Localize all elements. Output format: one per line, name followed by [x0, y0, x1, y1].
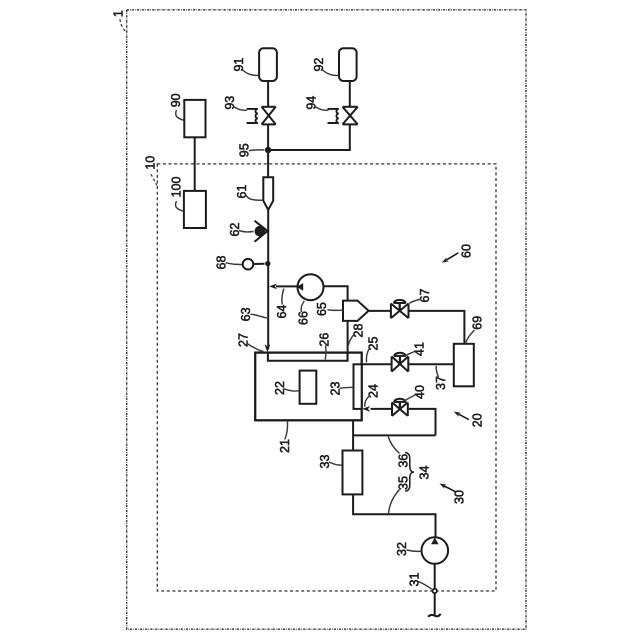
label 64	[275, 289, 289, 319]
svg-text:37: 37	[434, 376, 448, 390]
box 33	[343, 451, 363, 495]
label 90	[169, 93, 184, 120]
svg-text:10: 10	[144, 156, 158, 170]
designation arrow 20	[454, 412, 485, 428]
label 94	[304, 96, 328, 111]
svg-text:90: 90	[169, 93, 183, 107]
svg-text:26: 26	[318, 333, 332, 347]
system boundary frame 1 (dash-dot border)	[127, 10, 526, 629]
junction node at 68	[265, 261, 270, 266]
pipe funnel to tank (line 63)	[267, 210, 269, 349]
svg-text:32: 32	[395, 542, 409, 556]
motor valve 67	[391, 300, 409, 318]
label 23	[328, 382, 353, 396]
svg-text:1: 1	[112, 10, 126, 17]
pipe 92 to valve 94	[349, 81, 351, 107]
tray 26 inside tank	[268, 353, 348, 361]
pipe 37 valve 41 to box 69	[409, 363, 454, 365]
label 68	[214, 256, 242, 270]
label 95	[237, 143, 264, 157]
pipe 28 pentagon to tray	[347, 322, 349, 361]
svg-text:34: 34	[417, 466, 431, 480]
label 24	[365, 384, 381, 407]
designation arrow 30	[439, 484, 466, 504]
heater box 69	[454, 344, 474, 387]
pipe 91 to valve 93	[267, 81, 269, 107]
filter funnel 61	[263, 177, 273, 210]
label 26	[318, 333, 332, 360]
svg-text:64: 64	[275, 305, 289, 319]
motor valve 41	[392, 353, 409, 372]
pipe valve 93 down to funnel 61	[267, 124, 269, 177]
svg-text:67: 67	[418, 289, 432, 303]
label 32	[395, 542, 421, 556]
svg-text:35: 35	[397, 476, 411, 490]
label 65	[315, 302, 343, 316]
mixer pentagon 65	[343, 301, 369, 321]
label 28	[348, 324, 365, 346]
label 36	[388, 437, 410, 468]
svg-text:66: 66	[296, 311, 310, 325]
pipe tank bottom to box 33	[352, 420, 354, 450]
label 33	[318, 455, 342, 469]
svg-text:36: 36	[397, 454, 411, 468]
pipe valve 94 down to node 95	[268, 124, 350, 150]
svg-text:24: 24	[366, 384, 380, 398]
svg-text:31: 31	[407, 573, 421, 587]
svg-text:65: 65	[315, 302, 329, 316]
label 62	[228, 223, 253, 237]
svg-text:40: 40	[413, 385, 427, 399]
pipe 64 pump to main line with arrow	[269, 284, 298, 290]
junction node 95	[265, 147, 271, 153]
inner box 23	[354, 364, 362, 409]
pipe 36	[353, 434, 435, 436]
svg-text:20: 20	[470, 413, 484, 427]
label 92	[312, 58, 339, 76]
controller box 90	[184, 100, 205, 137]
pipe box 23 to valve 41 (pipe 25)	[362, 363, 392, 365]
subsystem box 10 (dashed border)	[157, 164, 496, 591]
label 69	[466, 316, 484, 343]
label 25	[366, 337, 380, 363]
label 66	[296, 301, 310, 325]
pipe node 31 to inlet	[434, 593, 436, 616]
svg-text:25: 25	[366, 337, 380, 351]
tank 21	[255, 353, 362, 421]
svg-text:21: 21	[278, 439, 292, 453]
svg-text:100: 100	[170, 177, 184, 198]
label 10	[144, 156, 158, 186]
label 35	[389, 476, 411, 513]
supply box 91	[259, 48, 277, 81]
designation arrow 60	[442, 244, 474, 263]
svg-text:60: 60	[460, 244, 474, 258]
pipe valve 40 to box 23 with arrow (pipe 24)	[362, 406, 391, 412]
pump 66 (circle with flow marker)	[297, 274, 324, 300]
pipe valve 40 down to pipe 36	[409, 409, 436, 436]
pipe pentagon to valve 67	[369, 310, 391, 312]
svg-text:69: 69	[470, 316, 484, 330]
label 67	[409, 289, 432, 304]
supply box 92	[339, 48, 357, 81]
node 31 (open circle)	[433, 589, 437, 593]
label 41	[405, 342, 427, 356]
sensor 68 (circle)	[243, 259, 265, 270]
arrow into tank top	[265, 344, 271, 352]
svg-text:33: 33	[318, 455, 332, 469]
valve 94 (spring globe valve)	[328, 107, 358, 125]
inner box 22	[300, 371, 317, 404]
label 21	[278, 422, 292, 453]
svg-text:92: 92	[312, 58, 326, 72]
label 63	[239, 307, 267, 321]
label 22	[273, 381, 299, 395]
label 40	[405, 385, 427, 401]
label 61	[235, 185, 263, 201]
label 93	[223, 96, 247, 111]
label 27	[236, 333, 263, 351]
label 100	[170, 177, 184, 212]
pipe pump 66 to pentagon 65	[324, 286, 348, 300]
brace grouping 35/36 with label 34	[405, 452, 431, 491]
pipe pump 32 to node 31	[434, 564, 436, 589]
svg-text:22: 22	[273, 381, 287, 395]
signal line 90-100	[194, 137, 196, 191]
ball check valve 62	[255, 221, 268, 242]
inlet squiggle	[428, 614, 440, 617]
label 37	[434, 366, 448, 390]
label 91	[232, 58, 259, 76]
sensor box 100	[184, 191, 206, 228]
svg-text:62: 62	[228, 223, 242, 237]
pipe valve 67 to box 69	[409, 311, 465, 344]
valve 93 (spring globe valve)	[247, 107, 276, 125]
svg-text:41: 41	[412, 342, 426, 356]
pump 32 (circle with flow marker)	[422, 537, 449, 564]
motor valve 40	[392, 399, 408, 416]
pipe 35 box 33 to pump 32	[353, 494, 435, 537]
svg-text:91: 91	[232, 58, 246, 72]
label 31	[407, 573, 432, 590]
label 1	[112, 10, 127, 32]
